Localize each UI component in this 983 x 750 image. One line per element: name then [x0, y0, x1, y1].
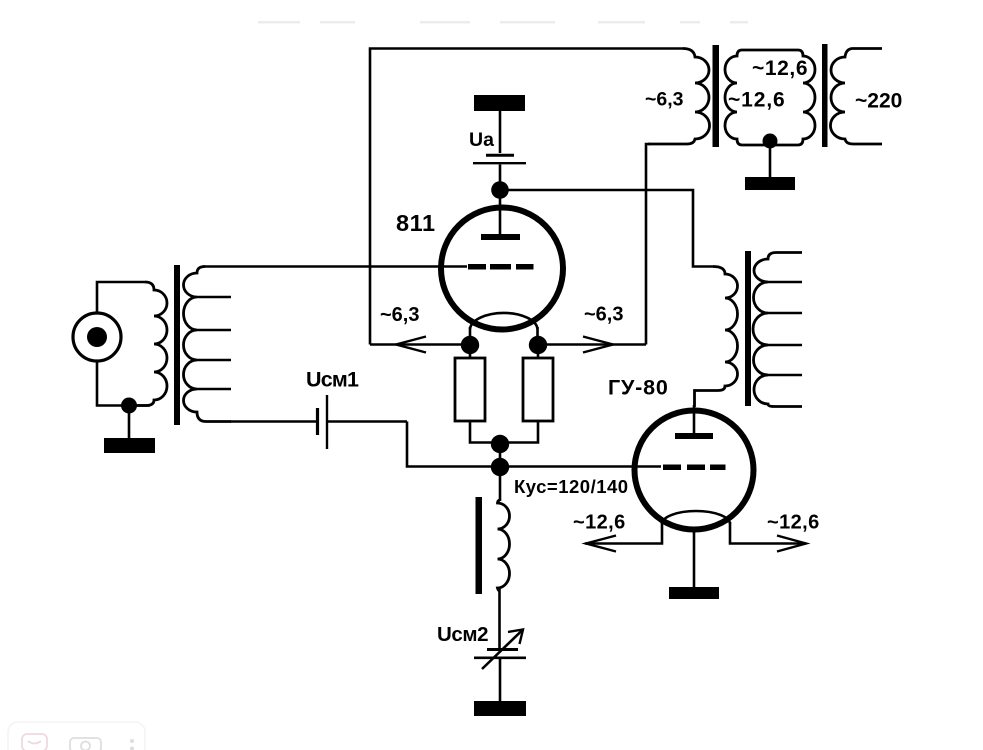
wire filament legs GU-80 — [585, 522, 806, 544]
wire resistor bottoms join — [470, 421, 538, 443]
transformer T1 secondary taps — [197, 297, 231, 389]
wire Usm2 to ground — [499, 659, 502, 701]
svg-text:~12,6: ~12,6 — [573, 512, 626, 534]
wire GU-80 cathode center — [693, 529, 696, 587]
power transformer 6.3V winding — [648, 49, 710, 145]
wire top loop left riser and top run — [370, 49, 684, 345]
wire right heater riser from 6.3 winding — [646, 144, 650, 345]
resistor R1 — [455, 358, 485, 421]
battery Usm1 — [318, 395, 328, 449]
wire center tap to ground — [769, 145, 772, 177]
ground bottom — [474, 701, 526, 716]
node anode supply junction — [491, 181, 509, 199]
tube GU-80 envelope — [635, 411, 754, 530]
wire input secondary bottom to battery — [230, 420, 316, 423]
grid of 811 (dashes) — [468, 264, 534, 270]
wire junction to bias bus — [499, 444, 502, 467]
svg-text:~12,6: ~12,6 — [767, 512, 820, 534]
grid of GU-80 (dashes) — [663, 465, 726, 471]
wire bus to choke — [499, 474, 502, 501]
svg-text:~12,6: ~12,6 — [728, 89, 786, 112]
transformer T1 primary winding — [136, 282, 167, 406]
wire jack bottom run — [97, 361, 150, 406]
choke L1 core — [476, 497, 483, 594]
wire dots to resistors — [470, 352, 538, 358]
wire heater right run — [546, 343, 646, 346]
input jack — [73, 313, 121, 361]
svg-text:Ua: Ua — [469, 129, 494, 151]
wire battery Ua to anode of 811 — [499, 165, 502, 235]
ground center tap — [745, 177, 795, 190]
battery Ua — [473, 155, 526, 163]
arrow heater left — [396, 337, 426, 353]
ground for Ua supply — [474, 95, 525, 111]
svg-text:~6,3: ~6,3 — [584, 304, 623, 326]
power transformer 220V winding — [830, 49, 882, 145]
node bias bus junction — [491, 458, 509, 476]
wire heater left run — [370, 343, 462, 346]
svg-text:Uсм2: Uсм2 — [437, 623, 488, 646]
choke L1 winding — [498, 500, 510, 591]
svg-text:~12,6: ~12,6 — [752, 57, 808, 80]
wire bias bus — [407, 422, 661, 467]
wire battery Usm1 to bus corner — [328, 420, 407, 423]
ground input — [104, 438, 155, 453]
svg-text:~6,3: ~6,3 — [380, 304, 419, 326]
svg-text:~6,3: ~6,3 — [645, 89, 684, 111]
wire choke to Usm2 — [498, 589, 501, 648]
filament of 811 — [470, 313, 538, 329]
arrow GU-80 heater left — [586, 536, 616, 552]
node input ground junction — [121, 398, 137, 414]
svg-text:~220: ~220 — [855, 90, 902, 113]
anode plate of 811 — [481, 234, 520, 240]
node filament left — [461, 336, 479, 354]
anode plate of GU-80 — [675, 433, 713, 439]
battery Usm2 variable — [474, 630, 526, 670]
node resistor junction — [491, 435, 509, 453]
wire jack top to transformer — [97, 282, 145, 313]
wire junction to ground — [128, 411, 131, 438]
svg-text:ГУ-80: ГУ-80 — [608, 376, 669, 400]
wire ground to battery Ua — [499, 111, 502, 153]
wire anode feed to output transformer — [508, 190, 714, 267]
node filament right — [529, 336, 547, 354]
wire filament legs 811 — [470, 327, 538, 340]
decorative toolbar bottom left — [8, 722, 145, 750]
resistor R2 — [523, 358, 553, 421]
arrow GU-80 heater right — [777, 536, 806, 552]
svg-text:Кус=120/140: Кус=120/140 — [514, 476, 629, 497]
transformer T2 core — [745, 251, 751, 406]
svg-text:Uсм1: Uсм1 — [306, 368, 359, 392]
transformer T1 secondary winding — [184, 267, 232, 422]
arrow heater right — [583, 337, 613, 353]
wire grid line from input transformer to 811 — [203, 265, 467, 268]
transformer T2 secondary taps — [768, 282, 802, 375]
transformer T2 output primary winding — [695, 267, 738, 408]
node center tap — [763, 134, 778, 149]
decorative faint top dashes — [258, 21, 748, 24]
filament of GU-80 — [662, 511, 730, 524]
transformer T1 core — [174, 265, 180, 425]
ground GU-80 — [669, 587, 719, 599]
transformer T2 secondary winding — [753, 253, 802, 407]
svg-text:811: 811 — [396, 210, 436, 236]
power transformer core 1 — [713, 45, 720, 147]
wire GU-80 anode lead — [693, 405, 696, 433]
power transformer 12.6V windings — [725, 50, 815, 145]
tube 811 envelope — [441, 208, 563, 330]
power transformer core 2 — [822, 44, 828, 147]
